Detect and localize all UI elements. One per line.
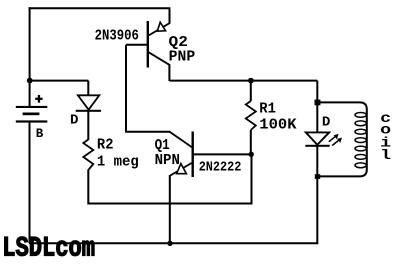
wire battery branch to diode bbox=[30, 80, 89, 82]
transistor Q2 (PNP 2N3906) bbox=[95, 8, 196, 82]
coil loop 1 bbox=[355, 113, 366, 118]
svg-text:2N3906: 2N3906 bbox=[95, 28, 139, 44]
svg-text:B: B bbox=[36, 126, 44, 141]
wire Q2 collector rail to right bbox=[169, 80, 317, 82]
Q1 base bar bbox=[192, 132, 194, 178]
wire Q2-base-net horizontal to Q1 collector bbox=[125, 131, 170, 133]
resistor R1 bbox=[246, 81, 297, 155]
coil loop 4 bbox=[355, 138, 366, 143]
transistor Q1 (NPN 2N2222) bbox=[155, 132, 252, 178]
svg-text:R1: R1 bbox=[259, 101, 276, 117]
wire left rail upper bbox=[29, 7, 31, 106]
Q1 emitter diagonal bbox=[170, 163, 192, 176]
battery B bbox=[16, 95, 48, 141]
wire bottom rail bbox=[29, 242, 318, 244]
wire diode D to R2 bbox=[87, 111, 89, 140]
Q2 base bar bbox=[147, 21, 149, 68]
wire top rail bbox=[29, 7, 171, 9]
coil loop 2 bbox=[355, 121, 366, 126]
Q2 base wire bbox=[126, 44, 147, 46]
svg-text:NPN: NPN bbox=[155, 153, 180, 169]
coil loop 3 bbox=[355, 129, 366, 134]
node junction dot left rail bbox=[27, 78, 33, 84]
wire left rail lower bbox=[29, 122, 31, 243]
coil L1 bbox=[318, 102, 391, 176]
wire Q2 base vertical down bbox=[125, 45, 127, 132]
Q1 base wire to junction bbox=[194, 153, 252, 155]
diode D (left) bbox=[70, 95, 101, 128]
svg-text:D: D bbox=[70, 113, 79, 128]
svg-text:Q2: Q2 bbox=[169, 35, 188, 51]
LED D (right) bbox=[305, 115, 342, 146]
Q2 collector diagonal bbox=[149, 52, 170, 65]
Q2 collector wire down bbox=[168, 64, 170, 81]
wire diode D anode lead bbox=[87, 81, 89, 96]
R1 top lead bbox=[250, 81, 252, 101]
svg-text:D: D bbox=[322, 115, 331, 130]
svg-text:l: l bbox=[380, 149, 391, 164]
LED emission arrow 2 bbox=[332, 139, 340, 145]
wire right vertical lower (LED cathode to bottom rail) bbox=[316, 146, 318, 243]
R1 bottom lead bbox=[250, 130, 252, 154]
node junction dot bottom rail / Q1 emitter bbox=[167, 241, 172, 246]
Q1 collector diagonal bbox=[170, 132, 193, 148]
coil loop 7 bbox=[355, 163, 366, 168]
node junction square coil top bbox=[315, 100, 321, 106]
svg-text:1 meg: 1 meg bbox=[97, 155, 139, 171]
wire right vertical upper (to LED anode) bbox=[316, 81, 318, 133]
node junction dot R1 top bbox=[248, 78, 254, 84]
coil loop 5 bbox=[355, 146, 366, 151]
svg-text:R2: R2 bbox=[97, 137, 114, 153]
svg-text:Q1: Q1 bbox=[155, 138, 170, 154]
wire Q1 emitter vertical down bbox=[169, 175, 171, 243]
Q2 emitter diagonal bbox=[149, 23, 170, 35]
svg-text:PNP: PNP bbox=[169, 50, 196, 66]
node junction dot Q1 base / R1 bottom bbox=[249, 152, 254, 157]
wire R2 bottom lead bbox=[87, 170, 89, 205]
svg-text:2N2222: 2N2222 bbox=[199, 160, 242, 175]
Q2 emitter wire up to top rail bbox=[169, 8, 171, 25]
wire vertical up to Q1 base junction bbox=[251, 154, 253, 204]
coil loop 6 bbox=[355, 155, 366, 160]
LED emission arrow 1 bbox=[329, 136, 337, 142]
wire middle horizontal R2 to base net bbox=[88, 203, 251, 205]
resistor R2 bbox=[83, 137, 139, 170]
node junction square coil bottom bbox=[315, 174, 320, 179]
svg-text:LSDLcom: LSDLcom bbox=[2, 233, 95, 264]
Q2 emitter arrow bbox=[157, 22, 165, 31]
Q1 emitter arrow bbox=[177, 164, 187, 174]
svg-text:100K: 100K bbox=[259, 117, 297, 133]
